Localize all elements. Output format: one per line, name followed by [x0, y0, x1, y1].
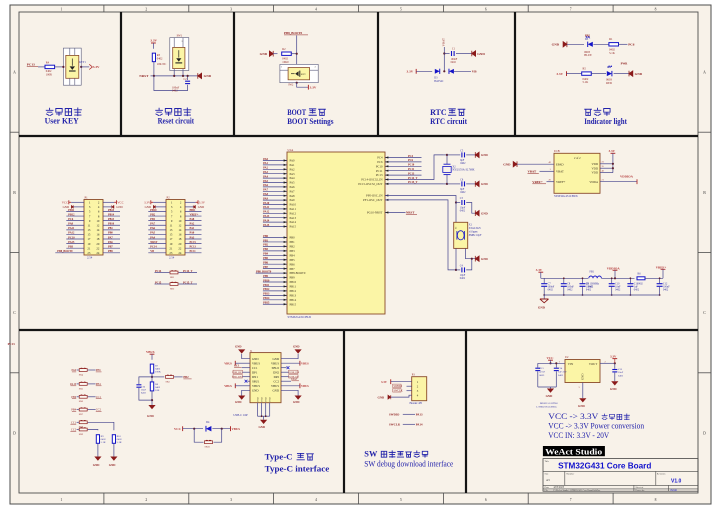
svg-text:GND: GND: [578, 404, 586, 408]
node PA0: [190, 232, 195, 235]
capacitor C14: [554, 363, 567, 387]
node PB9: [263, 275, 268, 278]
wire crystal gnd pad: [466, 248, 472, 258]
svg-text:PA13: PA13: [416, 412, 423, 416]
svg-text:CC1: CC1: [96, 396, 102, 399]
resistor R4: [45, 61, 55, 76]
junction: [612, 167, 614, 169]
svg-text:B: B: [13, 191, 16, 195]
capacitor C8: [561, 278, 575, 295]
svg-text:PB7: PB7: [290, 267, 296, 271]
logo WeAct Studio: [543, 446, 605, 456]
node PA6: [150, 227, 155, 230]
node PC15: [155, 281, 162, 284]
svg-text:GND: GND: [581, 373, 585, 380]
pin: [284, 254, 287, 256]
wire: [263, 186, 287, 188]
node PB10: [263, 279, 270, 282]
node PB5: [263, 257, 268, 260]
wire: [97, 443, 99, 456]
node VBAT: [528, 170, 539, 174]
node PC14_T: [408, 177, 418, 180]
wire: [212, 428, 230, 430]
svg-text:Drawn by:: Drawn by:: [635, 490, 645, 492]
svg-text:VREF+: VREF+: [532, 180, 543, 184]
wire: [281, 362, 300, 364]
svg-text:D: D: [703, 431, 706, 435]
node USB_DN: [232, 375, 243, 379]
svg-text:PAD: PAD: [257, 397, 260, 402]
title RTC circuit: [430, 108, 467, 126]
svg-text:chayin: chayin: [670, 489, 678, 492]
svg-text:PB2: PB2: [290, 245, 296, 249]
node PA3: [263, 171, 268, 174]
wire: [281, 385, 300, 387]
node PB8_BOOT0: [57, 250, 73, 253]
power 3.3V: [196, 200, 206, 204]
node PC14: [155, 270, 162, 273]
ground: [378, 395, 391, 399]
node PB2: [263, 244, 268, 247]
svg-text:GND: GND: [610, 387, 618, 391]
svg-text:32: 32: [455, 227, 457, 229]
svg-text:USB_DN: USB_DN: [232, 376, 242, 379]
svg-text:0402: 0402: [172, 90, 178, 93]
svg-text:5: 5: [400, 8, 402, 12]
node PB4: [96, 383, 102, 386]
svg-text:CC2: CC2: [96, 409, 102, 412]
node PA5: [263, 180, 268, 183]
svg-text:Indicator light: Indicator light: [584, 117, 627, 126]
wire: [385, 212, 406, 214]
node SWCLK: [393, 389, 403, 393]
wire: [466, 203, 475, 214]
wire: [466, 259, 475, 270]
wire: [263, 237, 287, 239]
wire: [174, 376, 183, 378]
svg-text:CC2: CC2: [71, 429, 77, 432]
capacitor C15: [612, 363, 623, 381]
svg-text:R1: R1: [609, 37, 613, 41]
power 3.3V: [381, 379, 391, 384]
wire: [385, 179, 422, 181]
resistor SR10: [194, 429, 222, 449]
ground: [475, 210, 488, 216]
wire: [148, 215, 166, 217]
svg-text:10K: 10K: [155, 389, 160, 392]
resistor SR7: [79, 408, 87, 416]
wire: [77, 421, 79, 423]
svg-text:GND: GND: [378, 395, 386, 399]
svg-text:GND: GND: [93, 463, 101, 467]
svg-text:Reset circuit: Reset circuit: [158, 117, 195, 126]
wire: [148, 224, 166, 226]
wire: [296, 35, 298, 64]
node VBUS: [231, 426, 241, 431]
wire: [66, 233, 84, 235]
svg-text:PB3: PB3: [290, 249, 296, 253]
svg-text:2: 2: [145, 498, 147, 502]
node NRST wire: [139, 74, 198, 78]
svg-text:0402: 0402: [567, 289, 573, 292]
svg-text:3.3V: 3.3V: [144, 201, 151, 205]
svg-text:VREF+: VREF+: [556, 180, 566, 184]
svg-text:PB2: PB2: [183, 375, 189, 379]
wire: [247, 380, 250, 382]
node VBAT: [441, 38, 445, 46]
wire: [185, 220, 202, 222]
svg-text:3.3V: 3.3V: [381, 380, 388, 384]
junction: [582, 277, 584, 279]
svg-text:3.3V: 3.3V: [609, 149, 616, 153]
wire: [263, 164, 287, 166]
power VBUS: [146, 350, 155, 354]
switch KEY1: [63, 48, 86, 85]
wire: [443, 47, 445, 71]
svg-text:4: 4: [315, 8, 317, 12]
svg-text:SWCLK: SWCLK: [394, 390, 403, 393]
pin: [284, 281, 287, 283]
node PC15_T: [183, 281, 193, 284]
svg-text:PB13: PB13: [290, 293, 297, 297]
node PC14_T: [183, 270, 193, 273]
svg-text:VBUS: VBUS: [232, 427, 241, 431]
junction: [471, 258, 473, 260]
note power conversion: [548, 412, 644, 440]
junction: [563, 294, 565, 296]
title SW debug download interface: [364, 450, 453, 469]
pin: [284, 217, 287, 219]
ground: [260, 51, 274, 57]
svg-text:PB0: PB0: [290, 236, 296, 240]
wire: [66, 243, 84, 245]
wire: [103, 201, 114, 203]
svg-text:0402: 0402: [157, 57, 163, 60]
svg-text:SBU1: SBU1: [252, 379, 260, 383]
wire: [148, 238, 166, 240]
wire: [81, 66, 89, 68]
wire: [281, 380, 291, 382]
svg-text:RTC: RTC: [430, 108, 447, 117]
wire: [391, 395, 412, 397]
wire: [179, 272, 198, 274]
svg-text:GND: GND: [635, 72, 643, 76]
ground: [259, 420, 268, 429]
svg-text:PB8-BOOT0: PB8-BOOT0: [290, 271, 306, 275]
node PA13: [263, 215, 270, 218]
wire: [385, 157, 422, 159]
no-connect SBU2: [287, 366, 290, 369]
wire: [263, 182, 287, 184]
wire: [614, 73, 629, 75]
node PA12: [263, 211, 270, 214]
junction: [611, 294, 613, 296]
ground: [475, 256, 488, 262]
svg-text:20: 20: [96, 242, 100, 246]
svg-text:PB5: PB5: [290, 258, 296, 262]
ground: [552, 42, 567, 48]
svg-text:PA15: PA15: [290, 225, 297, 229]
svg-text:14: 14: [96, 228, 100, 232]
svg-text:STM32G431 Core Board: STM32G431 Core Board: [558, 462, 651, 471]
wire: [103, 247, 120, 249]
pin: [284, 285, 287, 287]
node PA1: [263, 162, 268, 165]
node PB7: [263, 266, 268, 269]
svg-text:CC2: CC2: [291, 378, 297, 381]
node PA3: [190, 236, 195, 239]
wire vdd bus: [600, 153, 613, 172]
wire: [66, 238, 84, 240]
pin: [284, 177, 287, 179]
node PC11: [408, 168, 415, 171]
wire: [567, 73, 583, 75]
node PB14: [108, 213, 115, 216]
svg-text:VOUT: VOUT: [589, 362, 597, 366]
wire: [263, 173, 287, 175]
svg-text:PB6: PB6: [96, 369, 101, 372]
node PB1: [108, 227, 113, 230]
svg-text:1: 1: [61, 8, 63, 12]
svg-text:GND: GND: [273, 357, 280, 361]
node PC13: [408, 172, 415, 175]
wire PF0 to crystal X1: [385, 196, 456, 203]
svg-text:PA6: PA6: [290, 185, 296, 189]
pin: [284, 236, 287, 238]
mcu U1B power pins: [554, 149, 600, 198]
junction: [296, 53, 298, 55]
node USB_DP: [232, 370, 242, 374]
wire: [517, 163, 554, 165]
node SWDIO: [393, 384, 402, 388]
regulator U2: [565, 356, 600, 383]
wire: [263, 241, 287, 243]
node PC6: [68, 218, 74, 221]
svg-text:VBAT: VBAT: [528, 170, 537, 174]
wire: [547, 181, 555, 183]
svg-text:7: 7: [570, 498, 572, 502]
ferrite bead FB1: [586, 271, 601, 289]
svg-text:18: 18: [96, 237, 100, 241]
node PB2: [150, 213, 155, 216]
wire: [71, 201, 84, 203]
node PA8: [263, 193, 268, 196]
ground: [538, 295, 549, 310]
pin: [385, 165, 388, 167]
wire: [242, 376, 250, 378]
wire: [256, 272, 287, 274]
node PC10: [68, 236, 75, 239]
svg-text:VB: VB: [472, 70, 477, 74]
power 3.3V: [556, 71, 566, 76]
svg-text:7: 7: [570, 8, 572, 12]
svg-text:SWDIO: SWDIO: [394, 385, 403, 388]
svg-text:SBU2: SBU2: [272, 366, 280, 370]
pin: [284, 294, 287, 296]
svg-text:16: 16: [96, 233, 100, 237]
wire: [155, 272, 170, 274]
svg-text:SW2: SW2: [288, 84, 294, 87]
wire: [66, 215, 84, 217]
diode D4: [206, 421, 211, 432]
node PA4: [263, 175, 268, 178]
svg-text:PB15: PB15: [290, 302, 297, 306]
node PB11: [68, 209, 75, 212]
svg-text:VCC: VCC: [174, 427, 182, 431]
pin: [284, 259, 287, 261]
svg-text:3.3V: 3.3V: [556, 72, 563, 76]
node PB0: [108, 232, 113, 235]
svg-text:PB14: PB14: [290, 298, 297, 302]
ground: [63, 205, 74, 209]
pin: [385, 156, 388, 158]
svg-text:24: 24: [96, 251, 100, 255]
pin: [385, 178, 388, 180]
junction: [446, 183, 448, 185]
wire: [152, 376, 164, 378]
regulator part number: [536, 402, 558, 408]
node PB4: [71, 409, 76, 412]
svg-text:VREF+: VREF+: [656, 265, 667, 269]
svg-text:10: 10: [178, 219, 182, 223]
svg-text:NRST: NRST: [406, 211, 415, 215]
node PC15_T: [408, 181, 418, 184]
node PB8_BOOT0: [284, 31, 308, 35]
svg-text:PB6: PB6: [290, 262, 296, 266]
svg-text:U1B: U1B: [554, 149, 560, 153]
svg-text:PC13: PC13: [27, 62, 35, 66]
wire: [55, 252, 84, 254]
svg-text:USB-C 16P: USB-C 16P: [233, 413, 248, 417]
wire: [103, 238, 120, 240]
wire: [242, 371, 250, 373]
svg-text:SW debug download interface: SW debug download interface: [364, 459, 453, 468]
node PB14: [263, 297, 270, 300]
node PB13: [263, 293, 270, 296]
capacitor C1: [451, 48, 458, 64]
wire: [456, 202, 460, 204]
svg-text:8: 8: [655, 498, 657, 502]
wire: [263, 294, 287, 296]
pin: [284, 245, 287, 247]
svg-text:3. ME6219A33M3G: 3. ME6219A33M3G: [536, 405, 557, 408]
svg-text:CC1: CC1: [71, 421, 77, 424]
wire: [263, 285, 287, 287]
wire: [66, 224, 84, 226]
svg-text:16: 16: [178, 233, 182, 237]
wire: [103, 206, 112, 208]
svg-text:SW1: SW1: [177, 35, 183, 38]
capacitor C6: [460, 179, 466, 195]
wire: [263, 190, 287, 192]
mcu U1A STM32G431CBU6: [287, 148, 385, 319]
wire: [151, 373, 153, 382]
wire: [148, 243, 166, 245]
node PA9: [263, 197, 268, 200]
svg-text:3.3V: 3.3V: [199, 201, 206, 205]
svg-text:PB12: PB12: [290, 289, 297, 293]
svg-text:P1: P1: [85, 195, 89, 199]
svg-text:KEY1: KEY1: [79, 61, 86, 64]
svg-text:PAD: PAD: [269, 397, 272, 402]
node PB7: [108, 246, 113, 249]
svg-text:CC1: CC1: [252, 366, 258, 370]
resistor R6: [637, 273, 645, 286]
resistor R3: [152, 53, 166, 66]
wire rail 3.3V: [541, 277, 588, 279]
svg-text:0402: 0402: [558, 374, 564, 377]
svg-text:0402: 0402: [634, 289, 640, 292]
node PB3: [263, 248, 268, 251]
ground: [578, 398, 586, 408]
wire: [148, 210, 166, 212]
node PB0: [263, 235, 268, 238]
wire: [88, 383, 96, 385]
svg-text:PB11: PB11: [290, 285, 297, 289]
resistor R10: [112, 435, 122, 445]
svg-text:GND: GND: [481, 153, 489, 157]
wire: [614, 270, 616, 278]
junction: [659, 294, 661, 296]
svg-text:P2: P2: [167, 195, 171, 199]
junction: [555, 362, 557, 364]
power 3.3V: [407, 69, 417, 74]
ground: [147, 405, 156, 418]
connector P2: [166, 195, 185, 259]
wire: [88, 369, 96, 371]
svg-text:PAD: PAD: [265, 397, 268, 402]
wire: [444, 53, 449, 55]
svg-text:GND: GND: [552, 43, 560, 47]
svg-text:0402: 0402: [451, 61, 457, 64]
svg-text:3.3V: 3.3V: [536, 268, 543, 272]
node VREF+: [532, 180, 546, 184]
wire: [38, 66, 46, 68]
node PB15: [263, 302, 270, 305]
node VBUS: [300, 383, 309, 388]
svg-text:PA14: PA14: [290, 220, 297, 224]
node PB3: [68, 246, 73, 249]
svg-text:0603: 0603: [539, 374, 545, 377]
node PB10: [108, 223, 115, 226]
wire: [600, 181, 637, 183]
svg-text:File: File: [545, 490, 548, 492]
node PA7: [263, 189, 268, 192]
wire: [540, 170, 555, 172]
svg-text:CC1: CC1: [234, 365, 240, 368]
node PC13: [190, 246, 197, 249]
svg-text:100K: 100K: [155, 371, 161, 374]
wire: [88, 429, 98, 432]
svg-text:DP1: DP1: [252, 370, 258, 374]
node SWCLK to PA14: [389, 422, 423, 426]
wire: [148, 252, 166, 254]
svg-text:11: 11: [88, 223, 91, 227]
svg-text:SR1: SR1: [170, 276, 175, 279]
svg-text:0402: 0402: [141, 391, 147, 394]
node PB11: [190, 209, 197, 212]
wire: [291, 53, 297, 55]
wire: [263, 290, 287, 292]
wire: [77, 396, 79, 398]
svg-text:VBUS: VBUS: [271, 384, 279, 388]
wire: [385, 183, 422, 185]
svg-text:Revision: Revision: [657, 473, 666, 476]
svg-text:VBUS: VBUS: [252, 384, 260, 388]
node SWDIO to PA13: [389, 412, 423, 416]
svg-text:VCC: VCC: [547, 356, 555, 360]
wire: [385, 170, 422, 172]
